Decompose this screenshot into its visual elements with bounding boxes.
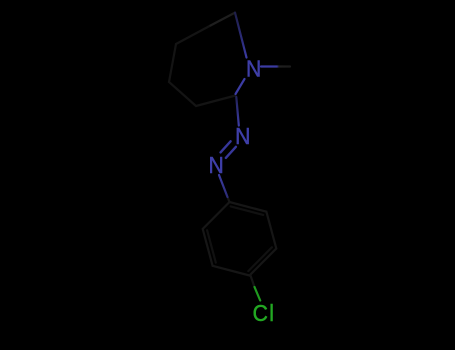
svg-text:N: N	[209, 152, 224, 178]
svg-text:N: N	[246, 55, 261, 81]
svg-text:N: N	[235, 123, 250, 149]
svg-text:Cl: Cl	[253, 300, 274, 326]
